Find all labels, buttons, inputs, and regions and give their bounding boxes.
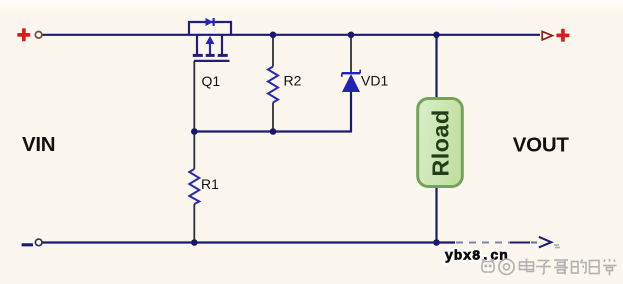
svg-text:Rload: Rload xyxy=(427,109,453,176)
resistor R2 bottom lead xyxy=(272,103,274,132)
label Rload xyxy=(427,109,453,176)
wire Rload top xyxy=(435,35,437,99)
watermark glyph chang xyxy=(603,259,617,276)
label VOUT xyxy=(513,133,570,156)
label R1 xyxy=(201,176,219,192)
watermark glyph de xyxy=(572,260,587,274)
node gate-R2 xyxy=(270,128,277,135)
resistor R2 zigzag xyxy=(268,67,278,103)
wire bottom rail dashed section under watermark xyxy=(456,242,537,244)
svg-text:VOUT: VOUT xyxy=(513,133,570,156)
svg-text:ybx8.cn: ybx8.cn xyxy=(445,248,509,264)
svg-text:R2: R2 xyxy=(284,73,302,89)
watermark glyph zi xyxy=(536,261,551,275)
watermark small dashes after arrow xyxy=(554,245,560,248)
watermark ybx8.cn xyxy=(445,248,509,264)
svg-text:VD1: VD1 xyxy=(361,73,388,89)
resistor R1 bottom lead xyxy=(193,204,195,243)
terminal arrow VOUT- xyxy=(539,237,552,248)
node bottom R1 xyxy=(191,239,198,246)
terminal circle VIN+ xyxy=(35,32,42,39)
terminal plus VIN xyxy=(17,28,30,41)
wire top rail VIN+ to VOUT+ xyxy=(42,34,540,36)
terminal circle VIN- xyxy=(35,239,42,246)
svg-text:VIN: VIN xyxy=(22,133,55,156)
wire bottom rail left section xyxy=(42,241,455,243)
watermark glyph ri xyxy=(590,261,600,274)
zener diode VD1 cathode bar xyxy=(342,70,360,77)
transistor Q1 drain stub xyxy=(196,35,198,54)
svg-text:Q1: Q1 xyxy=(202,73,221,89)
watermark glyph ge xyxy=(554,260,568,275)
zener diode VD1 triangle xyxy=(342,74,360,92)
transistor Q1 gate bar xyxy=(194,60,230,62)
label R2 xyxy=(284,73,302,89)
watermark at-sign xyxy=(499,259,514,274)
resistor R2 top lead xyxy=(272,35,274,67)
node gate-R1 xyxy=(191,128,198,135)
wire gate net horizontal xyxy=(194,130,351,132)
terminal plus VOUT xyxy=(556,29,569,42)
node bottom Rload xyxy=(433,239,440,246)
load resistor Rload body xyxy=(418,99,463,187)
label Q1 xyxy=(202,73,221,89)
resistor R1 zigzag xyxy=(189,169,199,204)
wire Rload bottom xyxy=(435,186,437,243)
node top VD1 xyxy=(348,32,355,39)
resistor R1 top lead xyxy=(193,132,195,170)
zener diode VD1 cathode lead xyxy=(350,35,352,73)
label VD1 xyxy=(361,73,388,89)
transistor Q1 body-diode triangle and bar xyxy=(206,18,214,26)
label VIN xyxy=(22,133,55,156)
watermark logo icon xyxy=(482,260,494,273)
transistor Q1 bulk arrow xyxy=(206,36,215,54)
watermark glyph dian xyxy=(520,259,534,272)
node top R2 xyxy=(270,32,277,39)
transistor Q1 gate lead xyxy=(193,61,195,132)
svg-text:R1: R1 xyxy=(201,176,219,192)
node top Rload xyxy=(433,32,440,39)
terminal arrow VOUT+ xyxy=(542,32,552,40)
transistor Q1 channel bars xyxy=(193,54,228,57)
transistor Q1 body-diode loop xyxy=(189,22,231,35)
transistor Q1 source stub xyxy=(221,35,223,54)
wire VD1 anode to gate net xyxy=(350,92,352,133)
terminal minus VIN xyxy=(22,243,33,246)
